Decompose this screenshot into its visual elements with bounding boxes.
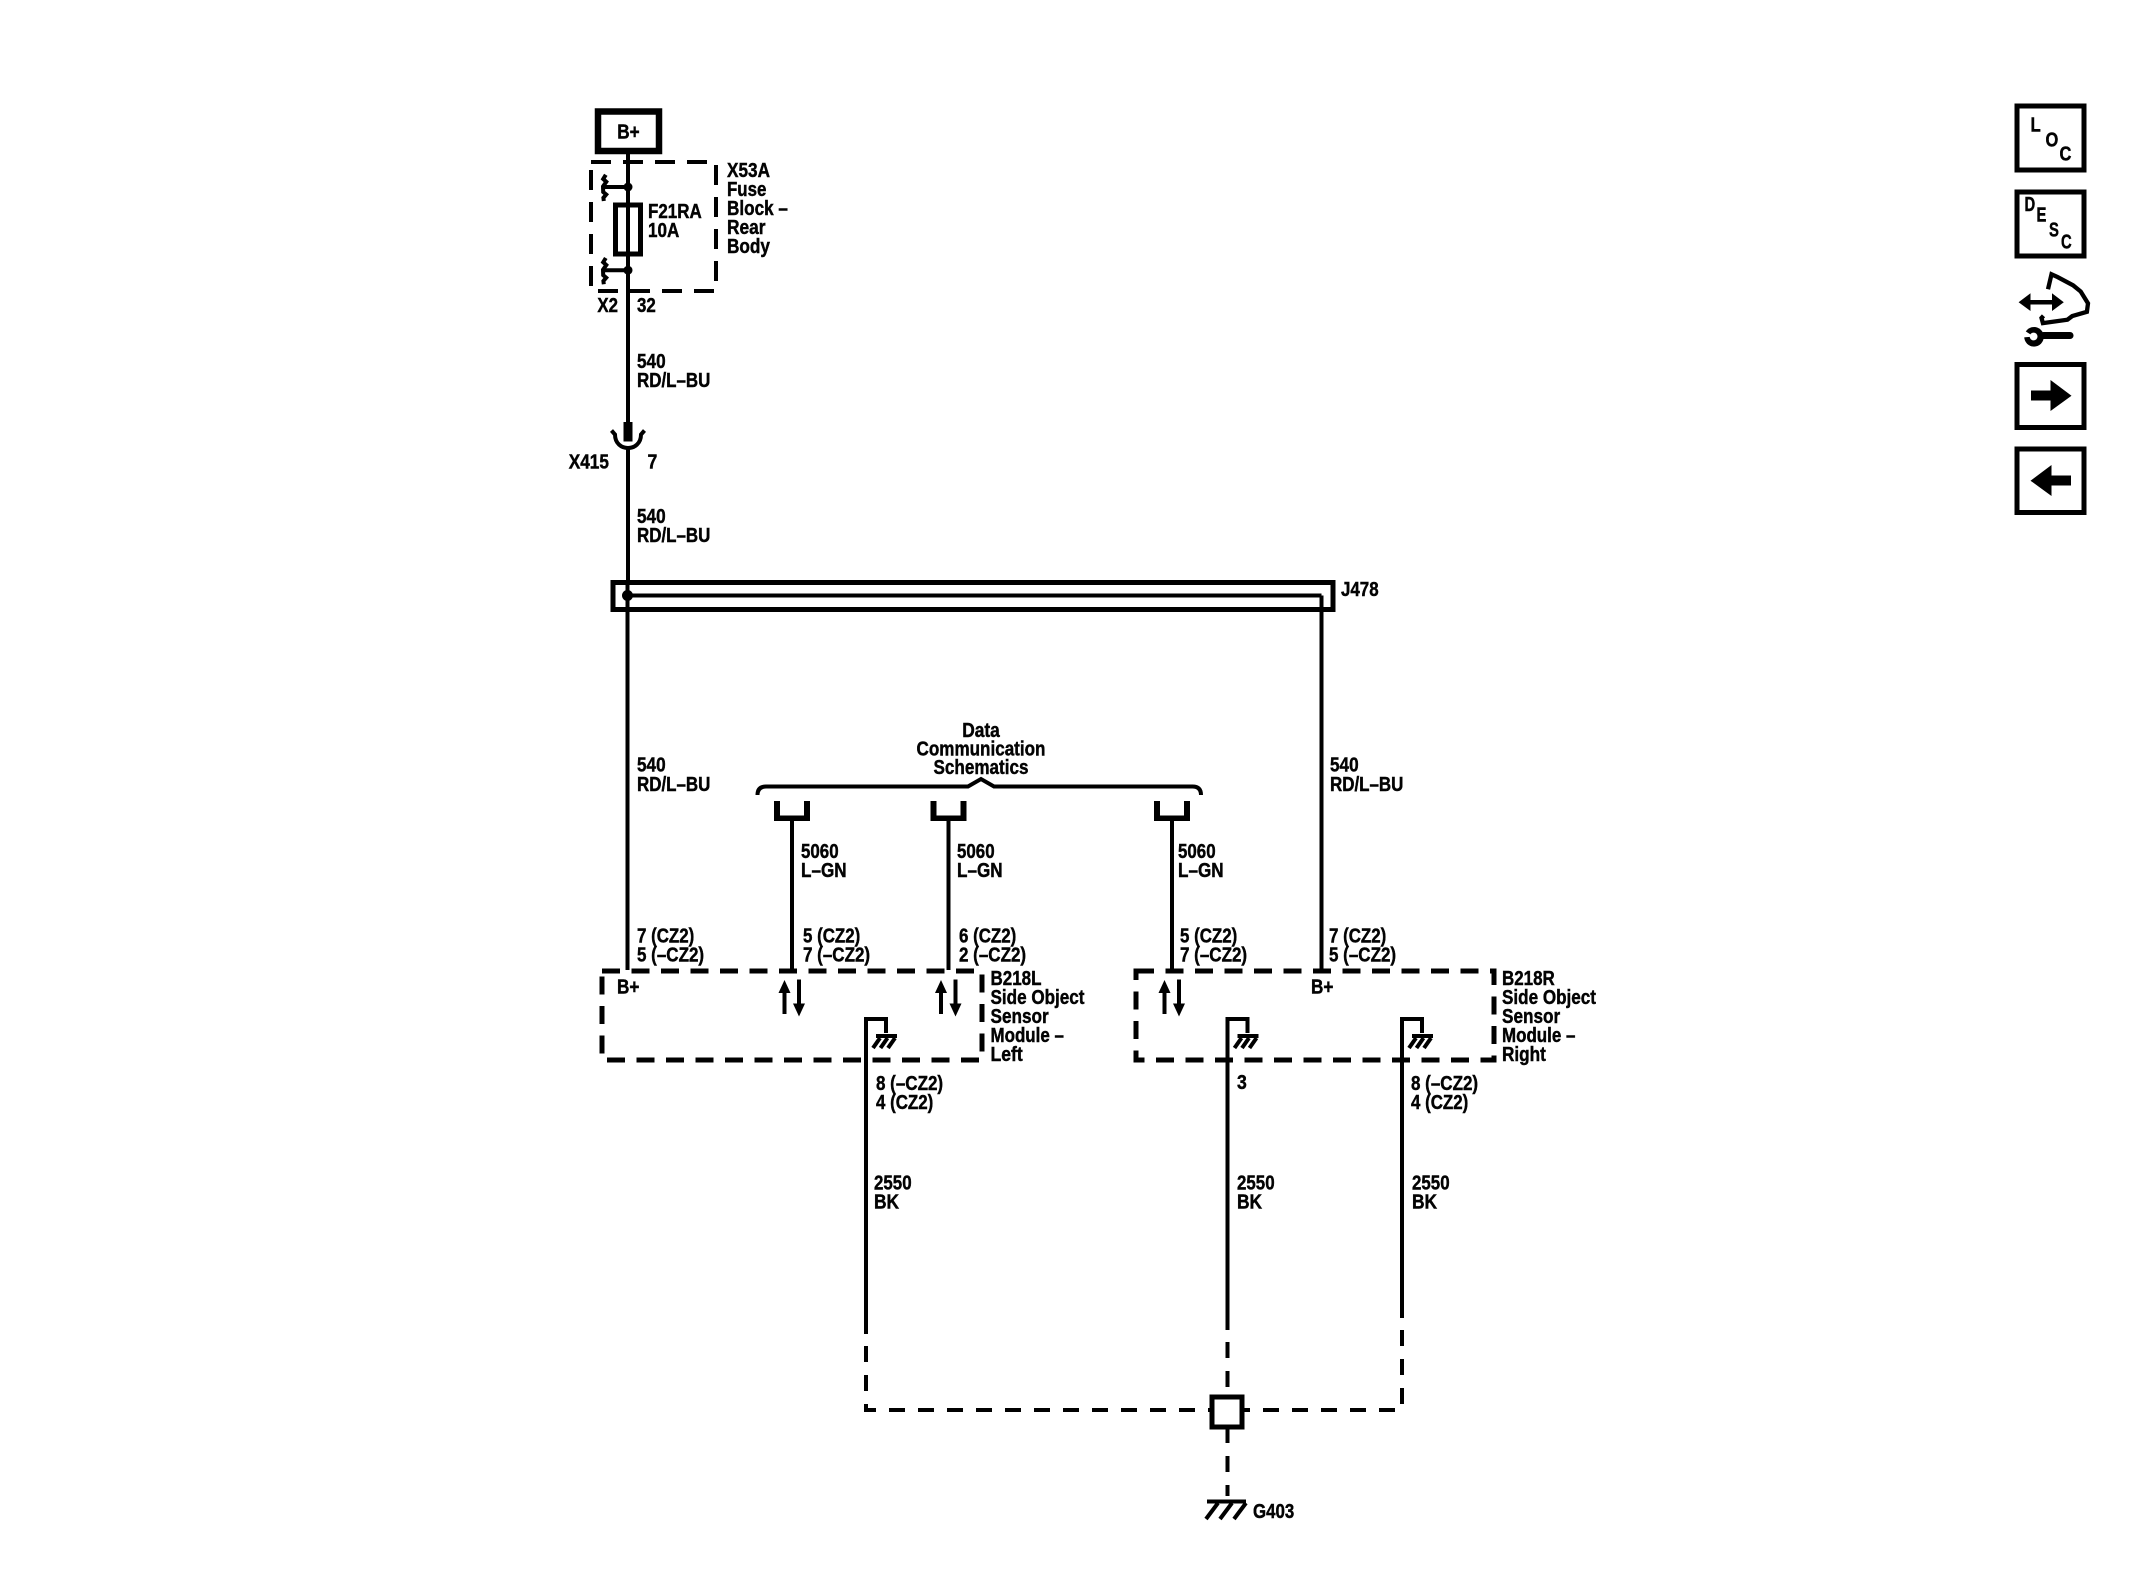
label F21RA 10A [648, 201, 702, 242]
wire left branch to B218L [626, 583, 630, 970]
svg-text:2 (–CZ2): 2 (–CZ2) [959, 945, 1026, 967]
svg-text:3: 3 [1237, 1072, 1247, 1094]
bidirectional arrows (B218R drop) [1159, 980, 1186, 1017]
pin labels (left drop) [803, 926, 870, 967]
fuse block terminal clip top [603, 175, 633, 201]
svg-text:7 (–CZ2): 7 (–CZ2) [1180, 945, 1247, 967]
svg-text:J478: J478 [1341, 579, 1379, 601]
svg-text:C: C [2060, 144, 2072, 166]
pin labels 8/4 below B218R [1411, 1073, 1478, 1114]
svg-text:C: C [2061, 232, 2072, 254]
svg-text:D: D [2025, 194, 2036, 216]
svg-text:32: 32 [637, 295, 656, 317]
label B218R Side Object Sensor Module - Right [1502, 968, 1596, 1066]
wire B+ to fuse to X415 [626, 151, 630, 422]
svg-text:4 (CZ2): 4 (CZ2) [876, 1092, 933, 1114]
svg-text:B+: B+ [617, 977, 639, 999]
svg-text:Schematics: Schematics [934, 757, 1029, 779]
internal ground symbol (B218L) [866, 1019, 897, 1060]
wire label 540 RD/L-BU (left branch) [637, 755, 710, 797]
pin labels (right B+ wire) [1329, 926, 1396, 967]
wire label 5060 L-GN (left) [801, 841, 847, 882]
wire 2550 BK right solid [1400, 1060, 1404, 1318]
svg-text:BK: BK [1412, 1192, 1438, 1214]
svg-text:5 (–CZ2): 5 (–CZ2) [1329, 945, 1396, 967]
wire label 5060 L-GN (right) [1178, 841, 1224, 882]
wire left data drop 5060 L-GN [790, 821, 794, 970]
wire label 2550 BK (left) [874, 1173, 912, 1214]
wire label 540 RD/L-BU (mid) [637, 506, 710, 547]
svg-text:10A: 10A [648, 220, 679, 242]
fuse block X53A dashed box [591, 162, 716, 291]
ground G403 symbol [1206, 1502, 1246, 1520]
fuse F21RA 10A [616, 205, 641, 254]
wire label 2550 BK (middle) [1237, 1173, 1275, 1214]
connector X415 inline [612, 422, 645, 448]
wire middle data drop 5060 L-GN [947, 821, 951, 970]
splice junction box [1212, 1397, 1242, 1427]
svg-text:E: E [2037, 205, 2047, 227]
wire right branch to B218R [1320, 596, 1324, 971]
brace to Data Communication Schematics [758, 779, 1202, 795]
pin labels (middle drop) [959, 926, 1026, 967]
wire X415 to bus J478 [626, 447, 630, 583]
svg-text:BK: BK [1237, 1192, 1263, 1214]
pin labels (left B+ wire) [637, 926, 704, 967]
power symbol B+ [598, 112, 659, 152]
svg-text:BK: BK [874, 1192, 900, 1214]
svg-text:RD/L–BU: RD/L–BU [637, 774, 710, 796]
svg-text:Right: Right [1502, 1044, 1546, 1066]
dashed wire junction to G403 [1226, 1427, 1230, 1496]
module B218L dashed box [602, 971, 982, 1060]
wire label 5060 L-GN (middle) [957, 841, 1003, 882]
label B218L Side Object Sensor Module - Left [991, 968, 1085, 1066]
bidirectional arrows (B218L drop 1) [779, 980, 806, 1017]
svg-text:X2: X2 [597, 295, 618, 317]
svg-text:X415: X415 [569, 452, 609, 474]
svg-text:Body: Body [727, 236, 771, 258]
off-page connector bracket (middle data drop) [931, 801, 967, 821]
wire label 2550 BK (right) [1412, 1173, 1450, 1214]
bus wire inside J478 [628, 594, 1322, 598]
svg-text:4 (CZ2): 4 (CZ2) [1411, 1092, 1468, 1114]
svg-text:Left: Left [991, 1044, 1023, 1066]
off-page connector bracket (left data drop) [774, 801, 810, 821]
wire label 540 RD/L-BU (top) [637, 351, 710, 392]
junction dot at J478 left [622, 590, 633, 601]
svg-text:7: 7 [648, 452, 658, 474]
wire 2550 BK middle solid [1226, 1060, 1230, 1330]
icon diagnostic (double arrow, outline, wrench) [2019, 274, 2088, 346]
svg-text:7 (–CZ2): 7 (–CZ2) [803, 945, 870, 967]
svg-text:L–GN: L–GN [801, 860, 847, 882]
bidirectional arrows (B218L drop 2) [935, 980, 962, 1017]
svg-text:L–GN: L–GN [957, 860, 1003, 882]
note Data Communication Schematics [917, 720, 1046, 779]
svg-text:L–GN: L–GN [1178, 860, 1224, 882]
off-page connector bracket (right data drop) [1154, 801, 1190, 821]
svg-text:O: O [2046, 130, 2059, 152]
pin labels (right drop) [1180, 926, 1247, 967]
splice pack J478 outer box [613, 583, 1333, 610]
svg-text:RD/L–BU: RD/L–BU [637, 525, 710, 547]
svg-text:B+: B+ [1311, 977, 1333, 999]
icon button DESC [2017, 192, 2084, 256]
module B218R dashed box [1136, 971, 1494, 1060]
icon button LOC [2017, 106, 2084, 170]
wire 2550 BK left solid [864, 1060, 868, 1334]
dashed ground route middle [1226, 1342, 1230, 1396]
fuse block terminal clip bottom [603, 258, 633, 284]
svg-text:L: L [2031, 115, 2041, 137]
svg-text:RD/L–BU: RD/L–BU [1330, 774, 1403, 796]
pin labels 8/4 below B218L [876, 1073, 943, 1114]
dashed ground route right [1244, 1330, 1402, 1410]
icon button next (right arrow) [2017, 365, 2084, 428]
svg-text:S: S [2049, 220, 2059, 242]
icon button back (left arrow) [2017, 449, 2084, 513]
label X53A Fuse Block - Rear Body [727, 160, 788, 258]
svg-text:G403: G403 [1253, 1501, 1294, 1523]
internal ground symbol (B218R pin 3) [1228, 1019, 1259, 1060]
svg-text:B+: B+ [617, 122, 639, 144]
dashed ground route left [866, 1346, 1210, 1410]
internal ground symbol (B218R pin 8/4) [1402, 1019, 1433, 1060]
svg-text:5 (–CZ2): 5 (–CZ2) [637, 945, 704, 967]
svg-text:RD/L–BU: RD/L–BU [637, 370, 710, 392]
wire right data drop 5060 L-GN [1170, 821, 1174, 970]
wire label 540 RD/L-BU (right branch) [1330, 755, 1403, 797]
